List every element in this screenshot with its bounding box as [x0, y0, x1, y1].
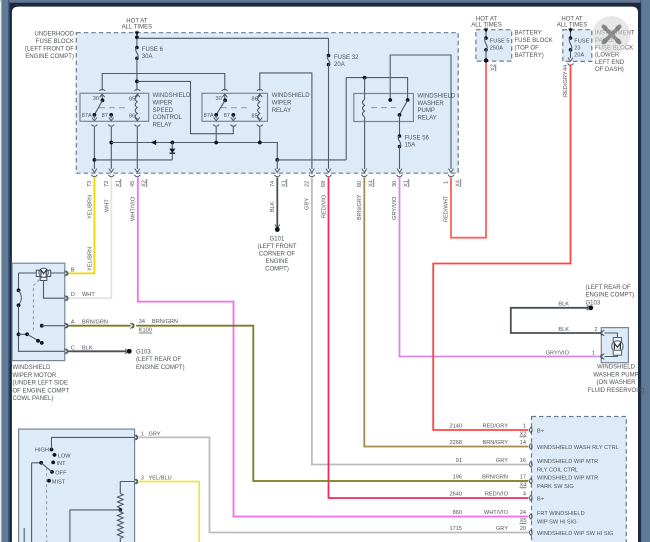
svg-text:WHT/VIO: WHT/VIO	[131, 196, 137, 221]
relay K1 pin 87 terminal	[102, 113, 115, 126]
svg-text:CONTROL: CONTROL	[153, 115, 183, 121]
relay K1 pin 87A terminal	[82, 113, 98, 126]
row 2268 BRN/GRY pin 14 labels	[449, 440, 526, 446]
svg-text:4: 4	[523, 492, 526, 498]
fuse block pin 60 terminal, connector X4	[357, 169, 375, 187]
instrument panel fuse block (dashed box)	[563, 30, 592, 62]
svg-text:ENGINE COMPT): ENGINE COMPT)	[586, 293, 635, 299]
svg-text:RELAY: RELAY	[153, 122, 172, 128]
svg-text:WHT: WHT	[82, 292, 95, 298]
label HOT AT ALL TIMES (battery)	[471, 17, 502, 29]
row 2140 connector symbol	[529, 427, 532, 433]
washer relay K3 switch lever	[398, 98, 410, 117]
wiper motor M1 box	[12, 263, 65, 360]
svg-text:GRY/VIO: GRY/VIO	[392, 196, 398, 220]
svg-text:BRN/GRN: BRN/GRN	[152, 319, 178, 325]
svg-text:(ON WASHER: (ON WASHER	[597, 380, 637, 386]
wire fuse32 down to fuseblock pin 68	[328, 65, 330, 169]
fuse block pin 1 terminal, connector X4	[444, 169, 462, 187]
mechanical link dashed in motor	[33, 280, 39, 333]
svg-text:WIPER MOTOR: WIPER MOTOR	[13, 373, 57, 379]
row 2140 RED/GRY pin 1 labels	[449, 424, 526, 438]
wire relay K2 pin86 to fuseblock pin 22	[260, 73, 312, 169]
wire switch pivot down	[31, 463, 33, 542]
svg-text:B+: B+	[537, 428, 544, 434]
svg-text:CORNER OF: CORNER OF	[259, 252, 295, 258]
svg-text:LEFT END: LEFT END	[595, 60, 625, 66]
svg-text:2640: 2640	[449, 492, 462, 498]
svg-text:RLY COIL CTRL: RLY COIL CTRL	[537, 467, 578, 473]
fuse F32 symbol	[327, 54, 331, 67]
washer pump relay K3 box	[354, 94, 414, 122]
relay K1 windshield wiper speed control relay box	[80, 93, 149, 121]
wire washer pump pin 1 internal	[605, 355, 618, 356]
wire relay K1 87A down to pin 73	[93, 127, 97, 169]
wire washer pump pin 2 internal	[605, 333, 618, 338]
park switch lever in motor	[19, 332, 44, 344]
relay K2 pin 87A terminal	[204, 113, 220, 126]
svg-text:14: 14	[520, 440, 526, 446]
signal frt windshield wip sw hi sig	[537, 511, 585, 526]
svg-text:OF ENGINE COMPT: OF ENGINE COMPT	[13, 388, 70, 394]
svg-text:FLUID RESERVOIR): FLUID RESERVOIR)	[588, 388, 645, 394]
wire BLK motor pin C to ground G103	[69, 350, 127, 352]
feed arrow into fuse block at x=137	[135, 31, 140, 47]
label windshield wiper relay	[272, 93, 311, 114]
svg-text:PUMP: PUMP	[418, 108, 435, 114]
row 196 BRN/GRN pin 17 labels	[453, 475, 527, 489]
wire relay K1 87 down to pin 72	[109, 127, 113, 169]
signal windshield wash rly ctrl	[537, 445, 619, 451]
svg-text:196: 196	[453, 475, 462, 481]
svg-text:BATTERY: BATTERY	[515, 31, 542, 37]
svg-text:23: 23	[574, 46, 580, 52]
signal B+ (row 2640)	[537, 496, 544, 502]
label battery fuse block	[515, 31, 553, 60]
svg-text:85: 85	[129, 96, 135, 102]
svg-text:BRN/GRY: BRN/GRY	[357, 194, 363, 220]
wire YEL/BRN pin73 to wiper motor pin B	[69, 178, 95, 274]
row 91 connector symbol	[529, 462, 532, 468]
row 2640 connector symbol	[529, 495, 532, 501]
svg-text:WINDSHIELD: WINDSHIELD	[13, 365, 52, 371]
fuse block pin 68 terminal	[321, 169, 332, 187]
svg-text:1: 1	[592, 351, 595, 357]
junction relay K2 85 on bus B	[258, 127, 262, 144]
svg-text:WINDSHIELD WASH RLY CTRL: WINDSHIELD WASH RLY CTRL	[537, 445, 619, 451]
svg-text:60: 60	[357, 181, 363, 187]
wire breaker down to park switch and pin C	[17, 305, 65, 351]
IP fuse block pin 44 terminal	[563, 58, 574, 71]
wire fuse F56 down to pin 30	[399, 147, 401, 170]
svg-text:WINDSHIELD: WINDSHIELD	[418, 94, 457, 100]
feed arrow into IP fuse block	[568, 28, 573, 38]
svg-text:WINDSHIELD: WINDSHIELD	[272, 93, 311, 99]
svg-text:GRY/VIO: GRY/VIO	[546, 351, 570, 357]
fuse block pin 74 terminal, connector X1	[270, 169, 288, 187]
label FUSE 32 20A	[334, 55, 359, 68]
svg-text:GRY: GRY	[305, 198, 311, 210]
svg-text:BATTERY): BATTERY)	[515, 53, 544, 59]
underhood fuse block (dashed box)	[76, 33, 458, 174]
switch position MIST	[47, 479, 66, 486]
svg-text:COWL PANEL): COWL PANEL)	[13, 396, 54, 402]
svg-text:WASHER: WASHER	[418, 101, 445, 107]
label G103 left rear of engine compt (pump)	[586, 285, 635, 307]
label HOT AT ALL TIMES (IP)	[557, 17, 588, 29]
row 2268 connector symbol	[529, 444, 532, 450]
wire fuse6 down to relay K1 pin85	[135, 58, 139, 90]
relay K1 switch lever 30-87A	[93, 98, 105, 116]
switch lever and pivot	[32, 461, 52, 472]
row 2640 RED/VIO pin 4 labels	[449, 492, 526, 498]
relay K2 switch lever 30-87A	[214, 98, 227, 116]
svg-text:HOT AT: HOT AT	[561, 17, 583, 23]
switch position OFF	[50, 470, 67, 476]
svg-text:1715: 1715	[449, 526, 462, 532]
svg-text:ENGINE COMPT): ENGINE COMPT)	[136, 365, 185, 371]
fuse F23 20A symbol	[569, 36, 573, 58]
svg-text:YEL/BRN: YEL/BRN	[88, 247, 94, 271]
svg-text:2268: 2268	[449, 440, 462, 446]
svg-text:FUSE: FUSE	[574, 39, 589, 45]
svg-text:G101: G101	[270, 237, 285, 243]
svg-text:G103: G103	[136, 349, 151, 355]
wire bus30: relay K1 pin30 to relay K2 pin30	[102, 74, 225, 91]
battery fuse block pin X2 label	[491, 64, 497, 71]
wire RED/GRY fuse23 to connector row 2140	[433, 66, 570, 431]
wire BRN/GRN motor pin A to connector K100	[69, 325, 131, 327]
relay K1 coil	[135, 96, 137, 119]
junction relay K2 87A on bus B	[214, 127, 218, 144]
svg-text:B+: B+	[537, 496, 544, 502]
switch position INT	[51, 461, 66, 467]
wire motor left to circuit breaker	[18, 273, 20, 290]
fuse block pin 30 terminal, connector X1	[392, 169, 410, 187]
svg-text:ENGINE: ENGINE	[265, 259, 288, 265]
fuse block pin 72 terminal, connector X1	[104, 169, 122, 187]
feed arrow into battery fuse block	[484, 28, 489, 38]
svg-text:74: 74	[270, 181, 276, 187]
close button	[592, 16, 630, 54]
wire washer relay common down to fuse F56	[399, 115, 401, 136]
svg-text:WINDSHIELD: WINDSHIELD	[153, 93, 192, 99]
ground bus to pin 74 and washer relay	[275, 78, 346, 169]
in-line connector K100 pin 34	[130, 319, 178, 334]
motor pin D connector	[64, 292, 95, 301]
svg-text:BLK: BLK	[558, 327, 569, 333]
svg-text:HOT AT: HOT AT	[476, 17, 498, 23]
svg-text:RED/GRY: RED/GRY	[482, 424, 508, 430]
label FUSE 6 30A	[142, 47, 164, 60]
svg-text:250A: 250A	[490, 46, 503, 52]
relay K2 pin 87 terminal	[224, 113, 237, 126]
svg-text:30A: 30A	[142, 54, 153, 60]
ground G103 (pump) symbol	[587, 305, 593, 310]
wire motor lower terminal to pin D	[44, 281, 65, 299]
motor pin B connector	[64, 267, 74, 276]
relay K2 coil	[258, 96, 260, 119]
svg-text:FUSE BLOCK: FUSE BLOCK	[36, 39, 74, 45]
svg-text:87A: 87A	[204, 113, 214, 119]
svg-text:22: 22	[305, 181, 311, 187]
row 860 connector symbol	[529, 514, 532, 520]
signal windshield wip sw hi sig	[537, 531, 614, 537]
wire washer relay coil-top bus	[346, 76, 407, 100]
svg-text:1: 1	[523, 424, 526, 430]
svg-text:FUSE 6: FUSE 6	[142, 47, 164, 53]
svg-text:RELAY: RELAY	[272, 108, 291, 114]
wire WHT pin72 to wiper motor pin D	[69, 178, 112, 299]
svg-text:FRT WINDSHIELD: FRT WINDSHIELD	[537, 511, 585, 517]
svg-text:WIPER: WIPER	[272, 101, 292, 107]
wire RED/WHT pin1 to battery fuse block	[444, 62, 487, 238]
svg-text:FUSE 5: FUSE 5	[490, 39, 510, 45]
svg-text:860: 860	[453, 510, 462, 516]
mechanical link dashed in switch	[46, 468, 48, 542]
svg-text:INT: INT	[57, 461, 67, 467]
svg-text:RED/WHT: RED/WHT	[444, 195, 450, 222]
svg-text:30: 30	[216, 96, 222, 102]
motor pin A connector	[64, 320, 108, 329]
svg-text:HIGH: HIGH	[35, 448, 49, 454]
washer relay K3 switch feed from fuse F5 (RED/WHT pin1)	[388, 55, 451, 169]
svg-text:91: 91	[456, 458, 462, 464]
svg-text:2140: 2140	[449, 424, 462, 430]
label instrument panel fuse block	[595, 31, 635, 73]
signal windshield wip mtr park sw sig	[537, 475, 598, 490]
motor pin C connector	[64, 345, 93, 354]
svg-text:1: 1	[444, 181, 450, 184]
relay K2 pin 30 terminal	[216, 89, 228, 102]
svg-text:WHT: WHT	[105, 199, 111, 212]
svg-text:COMPT): COMPT)	[265, 267, 289, 273]
row 1715 connector symbol	[529, 530, 532, 536]
svg-text:34: 34	[139, 319, 145, 325]
svg-text:(LEFT FRONT: (LEFT FRONT	[257, 244, 296, 250]
washer pump pin 1 connector	[592, 351, 604, 360]
switch pin 1 connector	[134, 431, 161, 440]
svg-text:ENGINE COMPT): ENGINE COMPT)	[25, 54, 74, 60]
ground G101 symbol	[275, 225, 280, 232]
svg-text:WINDSHIELD WIP SW HI SIG: WINDSHIELD WIP SW HI SIG	[537, 531, 614, 537]
body control module connector box (dashed)	[532, 417, 627, 542]
svg-text:B: B	[71, 267, 75, 273]
svg-text:FUSE 32: FUSE 32	[334, 55, 359, 61]
svg-text:OF DASH): OF DASH)	[595, 67, 624, 73]
svg-text:30: 30	[93, 96, 99, 102]
svg-text:20A: 20A	[334, 62, 345, 68]
fuse block pin 22 terminal	[305, 169, 315, 187]
label windshield wiper speed control relay	[153, 93, 192, 128]
svg-text:ALL TIMES: ALL TIMES	[122, 25, 153, 31]
wire WHT/VIO pin45 to connector row 860	[131, 178, 529, 517]
svg-text:86: 86	[129, 113, 135, 119]
svg-text:15A: 15A	[405, 143, 416, 149]
switch pin 3 connector	[134, 476, 172, 485]
fuse F32 drop from bus	[328, 38, 330, 55]
fuse block pin 73 terminal	[87, 169, 97, 187]
svg-text:(LEFT FRONT OF: (LEFT FRONT OF	[25, 47, 74, 53]
wire GRY switch pin1 to connector row 1715	[138, 437, 528, 532]
wire switch pin 3 to resistor R1	[120, 482, 134, 494]
resistor R2	[118, 510, 124, 542]
relay K2 windshield wiper relay box	[202, 93, 268, 121]
diode D1 between bus B and 87A line	[169, 141, 175, 160]
fuse F6 symbol	[135, 46, 139, 60]
svg-text:BLK: BLK	[558, 301, 569, 307]
svg-text:FUSE 56: FUSE 56	[405, 136, 430, 142]
wire BLK washer pump pin 2 to ground G103	[511, 301, 601, 333]
svg-text:17: 17	[520, 475, 526, 481]
bus H1 fuse6-top to fuse32-top	[137, 37, 329, 39]
svg-text:68: 68	[321, 181, 327, 187]
relay K2 pin 85 terminal	[252, 113, 263, 126]
svg-text:WASHER PUMP: WASHER PUMP	[593, 372, 638, 378]
svg-text:RED/GRY: RED/GRY	[563, 71, 569, 97]
svg-text:16: 16	[520, 458, 526, 464]
resistor tap junction	[70, 508, 122, 542]
svg-text:BLK: BLK	[270, 201, 276, 212]
svg-text:WINDSHIELD WIP MTR: WINDSHIELD WIP MTR	[537, 459, 598, 465]
row 196 connector symbol	[529, 478, 532, 484]
switch inner assembly edge	[23, 528, 25, 542]
net bus B (87 tie line) with direction arrow	[111, 140, 277, 160]
label windshield wiper motor	[13, 365, 70, 402]
label FUSE 5 250A	[490, 39, 510, 52]
label windshield washer pump location	[588, 365, 645, 394]
svg-text:RED/VIO: RED/VIO	[322, 194, 328, 218]
signal windshield wip mtr rly coil ctrl	[537, 459, 598, 474]
wire GRY pin22 to connector row 91	[305, 178, 529, 465]
svg-text:WINDSHIELD WIP MTR: WINDSHIELD WIP MTR	[537, 475, 598, 481]
switch position LOW	[53, 453, 72, 459]
fuse block pin 45 terminal, connector X2	[130, 169, 148, 187]
svg-text:SPEED: SPEED	[153, 108, 174, 114]
fuse F5 250A symbol	[484, 36, 488, 62]
wire YEL/BLU switch pin3 down	[138, 482, 199, 542]
svg-text:BRN/GRY: BRN/GRY	[482, 440, 508, 446]
svg-text:44: 44	[563, 65, 569, 71]
wire BRN/GRY pin60 to connector row 2268	[357, 178, 528, 447]
relay K1 pin 85 terminal	[129, 89, 140, 102]
circuit breaker arc in motor	[17, 288, 22, 307]
svg-text:45: 45	[130, 181, 136, 187]
svg-text:87: 87	[102, 113, 108, 119]
svg-text:73: 73	[87, 181, 93, 187]
label FUSE 56 15A	[405, 136, 430, 149]
svg-text:UNDERHOOD: UNDERHOOD	[34, 32, 74, 38]
svg-text:WHT/VIO: WHT/VIO	[484, 510, 509, 516]
svg-text:87: 87	[224, 113, 230, 119]
svg-text:PARK SW SIG: PARK SW SIG	[537, 484, 574, 490]
svg-text:HOT AT: HOT AT	[126, 19, 148, 25]
fuse F56 symbol	[398, 134, 402, 148]
svg-text:YEL/BRN: YEL/BRN	[88, 195, 94, 219]
washer pump pin 2 connector	[594, 327, 604, 336]
resistor R1	[118, 494, 124, 508]
svg-text:(LEFT REAR OF: (LEFT REAR OF	[136, 357, 181, 363]
svg-text:WIP SW HI SIG: WIP SW HI SIG	[537, 519, 577, 525]
wire fuse6 branch to relay K2 pin87 (via jog)	[137, 81, 233, 133]
wire GRY/VIO pin30 to washer pump pin 1	[392, 178, 601, 357]
label underhood fuse block	[25, 32, 75, 61]
svg-text:GRY: GRY	[496, 526, 508, 532]
row 91 GRY pin 16 labels	[456, 458, 526, 464]
svg-text:86: 86	[252, 96, 258, 102]
park switch contact to pin A	[40, 324, 65, 328]
label FUSE 23 20A	[574, 39, 589, 59]
signal B+ (row 2140)	[537, 428, 544, 434]
washer relay K3 coil	[363, 78, 365, 169]
relay K2 pin 86 terminal	[252, 89, 263, 102]
label GRY/VIO on pump wire	[546, 351, 570, 357]
wire line C 87A to diode	[94, 159, 172, 161]
svg-text:20A: 20A	[574, 53, 584, 59]
svg-text:GRY: GRY	[496, 458, 508, 464]
svg-text:MIST: MIST	[52, 480, 66, 486]
battery fuse block (dashed box)	[476, 30, 512, 61]
svg-text:85: 85	[252, 113, 258, 119]
svg-text:OFF: OFF	[55, 470, 67, 476]
row 860 WHT/VIO pin 24 labels	[453, 510, 527, 524]
washer pump M symbol	[612, 338, 623, 356]
label windshield washer pump relay	[418, 94, 457, 122]
svg-text:FUSE BLOCK: FUSE BLOCK	[515, 38, 553, 44]
ground G103 (motor) symbol	[125, 349, 132, 354]
svg-text:BRN/GRN: BRN/GRN	[482, 475, 508, 481]
svg-text:72: 72	[104, 181, 110, 187]
svg-text:WINDSHIELD: WINDSHIELD	[597, 365, 636, 371]
wire relay K1 86 down to pin 45	[136, 127, 138, 169]
svg-text:LOW: LOW	[58, 453, 72, 459]
wiper motor M symbol	[19, 268, 65, 280]
svg-text:24: 24	[520, 510, 526, 516]
wire RED/VIO pin68 to connector row 2640	[322, 178, 529, 499]
svg-text:RED/VIO: RED/VIO	[485, 492, 509, 498]
svg-text:30: 30	[392, 181, 398, 187]
svg-text:20: 20	[520, 526, 526, 532]
svg-text:87A: 87A	[82, 113, 92, 119]
svg-text:(TOP OF: (TOP OF	[515, 46, 540, 52]
wire HIGH contact to switch pin 1	[52, 437, 135, 449]
windshield washer pump box	[601, 328, 628, 363]
wire BRN/GRN K100 to connector row 196	[136, 326, 528, 481]
svg-text:(UNDER LEFT SIDE: (UNDER LEFT SIDE	[13, 381, 69, 387]
svg-text:(LEFT REAR OF: (LEFT REAR OF	[586, 285, 631, 291]
wire BLK pin74 to ground G101	[270, 178, 277, 229]
wiper switch box	[19, 429, 135, 542]
row 1715 GRY pin 20 labels	[449, 526, 526, 532]
relay K1 pin 86 terminal	[129, 113, 140, 126]
svg-text:G103: G103	[586, 300, 601, 306]
svg-text:D: D	[71, 292, 75, 298]
svg-text:ALL TIMES: ALL TIMES	[557, 23, 588, 29]
label HOT AT ALL TIMES (fuse 6 feed)	[122, 19, 153, 31]
label G103 left rear of engine compt (motor)	[136, 349, 185, 371]
switch position HIGH	[35, 448, 53, 454]
svg-text:RELAY: RELAY	[418, 115, 437, 121]
svg-text:WIPER: WIPER	[153, 101, 173, 107]
relay K1 pin 30 terminal	[93, 89, 105, 102]
label G101 left front corner of engine compt	[257, 237, 296, 273]
